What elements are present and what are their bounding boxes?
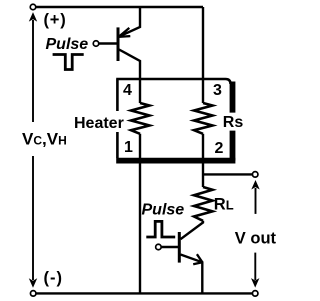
transistor Q1 emitter (to + rail) [119, 7, 140, 37]
Vc,VH dimension arrow upper [29, 12, 37, 122]
resistor RL [194, 187, 213, 221]
transistor Q1 (PNP) base lead [99, 42, 117, 44]
resistor Heater [131, 103, 150, 134]
svg-text:4: 4 [123, 82, 132, 99]
sensor box thick bottom bar [116, 158, 235, 164]
wire heater bottom lead to rail [139, 134, 141, 294]
node V out + terminal [252, 172, 258, 178]
pulse waveform top (negative pulse) [53, 55, 84, 70]
transistor Q2 collector (to RL) [181, 221, 204, 239]
svg-text:Rs: Rs [223, 114, 244, 131]
transistor Q1 collector [119, 50, 140, 104]
V out up arrow [251, 180, 259, 214]
transistor Q1 emitter arrow (PNP, into base) [119, 28, 131, 37]
svg-text:VC,VH: VC,VH [22, 130, 67, 149]
transistor Q2 emitter [181, 255, 203, 294]
node pulse input bottom [156, 244, 162, 250]
svg-text:3: 3 [213, 82, 222, 99]
svg-text:V out: V out [235, 230, 277, 248]
V out down arrow [251, 253, 259, 288]
pulse waveform bottom (positive pulse) [146, 221, 175, 237]
node pulse input top [93, 41, 99, 47]
wire right drop to pin 3 [202, 7, 204, 103]
transistor Q2 (NPN) base lead [161, 246, 178, 248]
node (-) terminal [30, 291, 36, 297]
wire to V out + terminal [203, 173, 252, 175]
svg-text:Pulse: Pulse [142, 201, 185, 218]
svg-text:1: 1 [124, 139, 133, 156]
wire top rail [36, 6, 203, 8]
svg-text:2: 2 [215, 140, 224, 157]
sensor box thick right bar [230, 82, 236, 161]
transistor Q1 base bar [117, 27, 120, 61]
svg-text:Pulse: Pulse [46, 36, 89, 53]
svg-text:(-): (-) [44, 269, 63, 287]
wire bottom rail [36, 292, 253, 294]
transistor Q2 emitter arrow (NPN, outward) [193, 254, 202, 264]
sensor box thin top/left outline [116, 79, 230, 158]
wire Rs bottom lead down to RL [202, 134, 204, 187]
svg-text:Heater: Heater [74, 115, 124, 132]
svg-text:RL: RL [214, 196, 234, 214]
resistor Rs [194, 103, 213, 134]
node (+) terminal [30, 4, 36, 10]
svg-text:(+): (+) [44, 11, 67, 29]
Vc,VH dimension arrow lower [29, 156, 37, 288]
node V out - terminal [252, 291, 258, 297]
transistor Q2 base bar [178, 232, 181, 263]
